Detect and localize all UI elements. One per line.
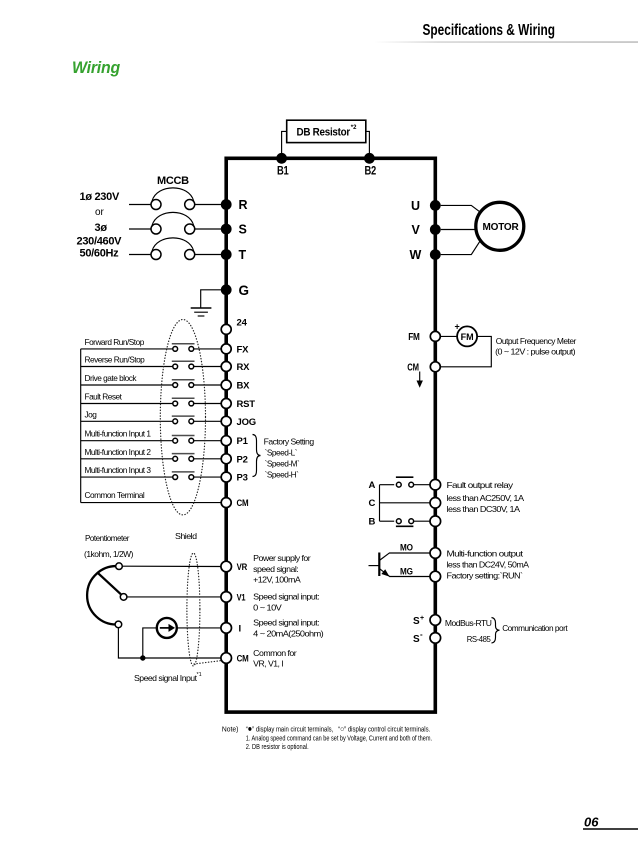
- svg-text:Reverse Run/Stop: Reverse Run/Stop: [85, 355, 146, 365]
- svg-text:Fault output relay: Fault output relay: [447, 480, 515, 490]
- svg-text:Factory Setting: Factory Setting: [264, 437, 315, 447]
- svg-text:B2: B2: [365, 166, 377, 178]
- svg-text:Communication port: Communication port: [502, 623, 568, 633]
- svg-text:CM: CM: [237, 654, 249, 665]
- svg-text:P3: P3: [237, 473, 248, 484]
- svg-text:or: or: [95, 207, 105, 218]
- svg-text:MCCB: MCCB: [157, 175, 189, 187]
- svg-text:P2: P2: [237, 454, 248, 465]
- svg-text:Wiring: Wiring: [72, 58, 121, 77]
- svg-text:less than AC250V, 1A: less than AC250V, 1A: [447, 493, 525, 503]
- svg-text:MOTOR: MOTOR: [483, 222, 520, 233]
- svg-text:`Speed-H`: `Speed-H`: [265, 470, 300, 480]
- svg-text:`Speed-M`: `Speed-M`: [265, 459, 300, 469]
- svg-text:24: 24: [237, 317, 248, 328]
- svg-text:Potentiometer: Potentiometer: [85, 533, 130, 543]
- svg-text:Note): Note): [222, 727, 239, 734]
- svg-text:JOG: JOG: [237, 417, 256, 428]
- svg-text:speed signal:: speed signal:: [253, 564, 298, 574]
- svg-text:Multi-function Input 2: Multi-function Input 2: [85, 447, 152, 457]
- svg-text:4 ~ 20mA(250ohm): 4 ~ 20mA(250ohm): [253, 628, 324, 638]
- svg-text:Power supply for: Power supply for: [253, 553, 311, 563]
- svg-text:R: R: [239, 198, 248, 212]
- svg-text:Specifications & Wiring: Specifications & Wiring: [423, 22, 556, 39]
- svg-text:S: S: [413, 616, 420, 627]
- svg-text:Shield: Shield: [175, 531, 197, 541]
- svg-text:06: 06: [584, 815, 599, 830]
- svg-text:T: T: [239, 248, 247, 262]
- svg-text:less than DC24V, 50mA: less than DC24V, 50mA: [447, 560, 530, 570]
- svg-text:Forward Run/Stop: Forward Run/Stop: [85, 337, 145, 347]
- svg-text:(0 ~ 12V : pulse output): (0 ~ 12V : pulse output): [495, 347, 576, 357]
- svg-text:Speed signal Input: Speed signal Input: [134, 673, 198, 683]
- svg-text:S: S: [239, 223, 247, 237]
- svg-text:A: A: [369, 480, 376, 491]
- svg-text:(1kohm, 1/2W): (1kohm, 1/2W): [84, 549, 134, 559]
- svg-text:2. DB resistor is optional.: 2. DB resistor is optional.: [246, 744, 309, 751]
- svg-text:+: +: [420, 615, 424, 622]
- svg-text:Speed signal input:: Speed signal input:: [253, 618, 319, 628]
- svg-text:RX: RX: [237, 362, 251, 373]
- svg-text:RS-485: RS-485: [467, 634, 491, 644]
- svg-text:50/60Hz: 50/60Hz: [80, 247, 120, 259]
- svg-text:S: S: [413, 634, 420, 645]
- svg-text:FX: FX: [237, 344, 250, 355]
- svg-text:VR, V1, I: VR, V1, I: [253, 658, 283, 668]
- svg-text:Drive gate block: Drive gate block: [85, 373, 138, 383]
- svg-text:0 ~ 10V: 0 ~ 10V: [253, 603, 282, 613]
- svg-text:Fault Reset: Fault Reset: [85, 392, 123, 402]
- svg-text:V: V: [412, 223, 421, 237]
- svg-text:+: +: [455, 322, 460, 332]
- svg-text:3ø: 3ø: [95, 222, 108, 234]
- svg-text:Factory setting:`RUN`: Factory setting:`RUN`: [447, 571, 524, 581]
- svg-text:VR: VR: [237, 562, 248, 573]
- svg-text:ModBus-RTU: ModBus-RTU: [445, 618, 492, 628]
- svg-text:Common Terminal: Common Terminal: [85, 490, 145, 500]
- svg-text:P1: P1: [237, 436, 249, 447]
- svg-text:1. Analog speed command can be: 1. Analog speed command can be set by Vo…: [246, 735, 432, 742]
- svg-text:MG: MG: [400, 566, 413, 577]
- svg-text:W: W: [410, 248, 422, 262]
- svg-text:FM: FM: [461, 332, 474, 342]
- svg-text:less than DC30V, 1A: less than DC30V, 1A: [447, 504, 521, 514]
- svg-text:*1: *1: [197, 672, 202, 678]
- svg-text:I: I: [239, 624, 242, 635]
- svg-text:Multi-function Input 1: Multi-function Input 1: [85, 429, 152, 439]
- svg-text:+12V, 100mA: +12V, 100mA: [253, 575, 301, 585]
- svg-text:Multi-function output: Multi-function output: [447, 549, 524, 559]
- svg-text:Multi-function Input 3: Multi-function Input 3: [85, 465, 152, 475]
- svg-text:FM: FM: [408, 332, 420, 343]
- svg-text:`Speed-L`: `Speed-L`: [265, 447, 298, 457]
- svg-text:B: B: [369, 517, 376, 528]
- svg-text:-: -: [420, 630, 423, 639]
- svg-text:Common for: Common for: [253, 648, 297, 658]
- svg-text:1ø 230V: 1ø 230V: [80, 191, 120, 203]
- svg-text:MO: MO: [400, 542, 413, 553]
- svg-text:*2: *2: [351, 125, 357, 131]
- svg-text:V1: V1: [237, 592, 247, 603]
- svg-text:“●” display main circuit termi: “●” display main circuit terminals, “○” …: [246, 724, 431, 734]
- svg-text:230/460V: 230/460V: [77, 236, 123, 248]
- svg-text:CM: CM: [237, 498, 249, 509]
- svg-text:Speed signal input:: Speed signal input:: [253, 592, 319, 602]
- svg-text:C: C: [369, 498, 376, 509]
- svg-text:BX: BX: [237, 381, 251, 392]
- svg-text:DB Resistor: DB Resistor: [297, 127, 351, 139]
- svg-text:CM: CM: [407, 362, 419, 373]
- svg-text:Output Frequency Meter: Output Frequency Meter: [496, 336, 577, 346]
- svg-text:Jog: Jog: [85, 409, 98, 419]
- svg-text:U: U: [411, 199, 420, 213]
- svg-text:G: G: [239, 283, 250, 298]
- svg-text:RST: RST: [237, 399, 256, 410]
- svg-text:B1: B1: [277, 166, 289, 178]
